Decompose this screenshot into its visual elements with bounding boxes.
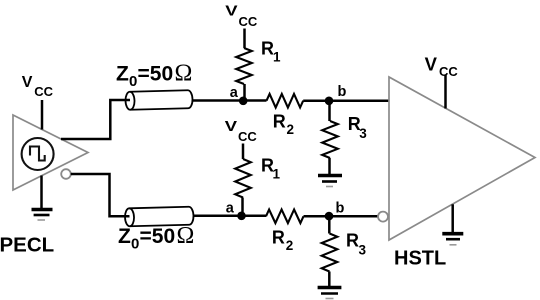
wire HSTL to ground — [451, 204, 454, 232]
resistor R2 (bottom network) — [266, 210, 304, 224]
wire Vcc to R1 (bottom network) — [242, 144, 245, 160]
resistor R2 (top network) — [267, 94, 304, 108]
Vcc label (HSTL) — [425, 53, 459, 79]
svg-text:=50: =50 — [138, 63, 174, 86]
svg-text:2: 2 — [287, 122, 295, 137]
wire bottom rail: transmission line to R2 — [194, 215, 267, 218]
wire Vcc to HSTL — [444, 75, 447, 109]
ground (top network R3) — [318, 176, 342, 187]
wire top rail: transmission line to R2 — [193, 99, 267, 102]
resistor R1 (bottom network) — [235, 159, 251, 198]
svg-text:0: 0 — [129, 73, 137, 90]
label R2 (bottom network) — [272, 228, 293, 253]
wire node b to R3 (top network) — [328, 101, 331, 121]
svg-text:Ω: Ω — [175, 61, 193, 87]
input bubble (HSTL inverting input) — [378, 212, 388, 222]
node a (top network) — [239, 97, 248, 106]
transmission line T1 (top coax cylinder) — [125, 90, 192, 110]
svg-text:3: 3 — [359, 243, 367, 258]
svg-text:V: V — [22, 74, 33, 91]
wire R1 to node a (top network) — [243, 84, 246, 101]
label R3 (bottom network) — [346, 231, 367, 258]
wire node b to R3 (bottom network) — [328, 216, 331, 233]
svg-text:PECL: PECL — [0, 233, 54, 256]
svg-text:a: a — [230, 85, 239, 101]
svg-text:Ω: Ω — [177, 223, 195, 249]
wire R3 to ground (top network) — [328, 158, 331, 175]
wire R3 to ground (bottom network) — [328, 272, 331, 287]
svg-text:CC: CC — [238, 129, 257, 144]
op-amp U1 PECL driver triangle — [13, 115, 88, 190]
svg-text:CC: CC — [439, 64, 458, 79]
output bubble (PECL inverting output) — [61, 169, 71, 179]
wire PECL bottom to ground — [40, 176, 43, 209]
ground (HSTL) — [442, 234, 463, 245]
label Z0=50ohm (bottom) — [118, 223, 194, 252]
svg-text:2: 2 — [286, 238, 294, 253]
svg-text:V: V — [225, 3, 237, 20]
svg-text:R: R — [272, 228, 285, 248]
svg-text:b: b — [338, 84, 347, 100]
transmission line T2 (bottom coax cylinder) — [125, 207, 194, 227]
svg-text:b: b — [336, 200, 345, 216]
label R1 (top network) — [261, 39, 281, 65]
resistor R1 (top network) — [236, 48, 252, 84]
svg-text:1: 1 — [273, 166, 281, 181]
wire top rail: R2 to HSTL input — [303, 100, 389, 103]
square-wave glyph inside pulse source — [30, 147, 45, 161]
resistor R3 (top network) — [322, 121, 338, 158]
Vcc label (top network) — [225, 3, 258, 29]
svg-text:a: a — [226, 200, 235, 216]
label R2 (top network) — [273, 112, 294, 138]
wire R1 to node a (bottom network) — [241, 198, 244, 216]
wire Vcc to R1 (top network) — [243, 29, 246, 49]
wire Vcc to PECL top — [41, 100, 44, 130]
node b (top network) — [325, 97, 334, 106]
svg-text:0: 0 — [131, 235, 139, 252]
svg-text:CC: CC — [34, 84, 53, 99]
svg-text:CC: CC — [239, 14, 258, 29]
node a (bottom network) — [237, 212, 246, 221]
op-amp U2 HSTL receiver triangle — [389, 77, 535, 240]
resistor R3 (bottom network) — [322, 234, 338, 272]
label R1 (bottom network) — [261, 155, 281, 181]
svg-text:V: V — [425, 53, 438, 74]
svg-text:Z: Z — [116, 63, 129, 86]
Vcc label (bottom network) — [225, 118, 258, 144]
svg-text:=50: =50 — [140, 225, 176, 248]
wire PECL inverting output to bottom transmission line — [71, 174, 132, 216]
ground (bottom network R3) — [318, 288, 342, 299]
ground (PECL) — [32, 210, 53, 221]
svg-text:V: V — [225, 118, 237, 135]
wire bottom rail: R2 to HSTL bubble — [304, 215, 379, 218]
svg-text:R: R — [346, 231, 359, 251]
node b (bottom network) — [325, 212, 334, 221]
svg-text:HSTL: HSTL — [394, 248, 446, 270]
label Z0=50ohm (top) — [116, 61, 192, 90]
Vcc label (PECL) — [22, 74, 54, 99]
svg-text:1: 1 — [273, 50, 281, 65]
svg-text:R: R — [273, 112, 286, 132]
wire PECL non-inverting output to top transmission line — [61, 100, 132, 139]
svg-text:Z: Z — [118, 225, 131, 248]
label R3 (top network) — [348, 114, 368, 141]
pulse source circle inside PECL driver — [22, 138, 54, 170]
svg-text:3: 3 — [359, 126, 367, 141]
